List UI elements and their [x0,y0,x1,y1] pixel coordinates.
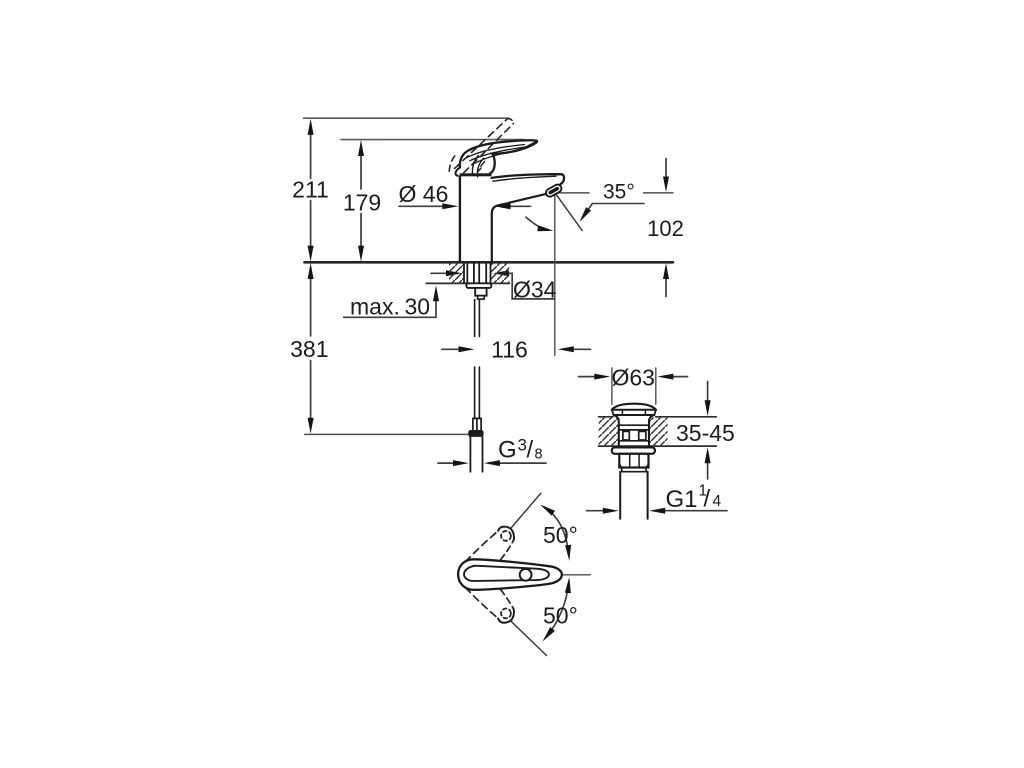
lower 50 arc with arrows [547,582,569,637]
threaded rod lower segment [475,367,480,418]
svg-text:max. 30: max. 30 [350,294,430,320]
lower dashed swung handle [498,609,514,623]
extension line top (211 upper reference) [304,117,509,119]
35 deg arc with arrow [526,217,548,230]
drain deck hatch right [650,418,668,446]
dimension 211 line [310,133,312,247]
spout inner top line [493,176,556,181]
svg-text:G: G [498,437,517,464]
handle top view outline [458,559,562,590]
lever handle outline [460,140,537,173]
spout vertical reference line [554,194,556,356]
dimension 116 [442,348,460,350]
handle pivot hole [520,569,532,581]
lever pivot dashes [478,161,485,171]
faucet mounting nut [475,288,486,296]
svg-text:116: 116 [491,336,528,362]
hose connector body [473,418,481,430]
svg-text:Ø 46: Ø 46 [399,181,449,207]
svg-text:50°: 50° [543,522,578,548]
faucet body right edge and spout underside [492,194,546,262]
35 deg leader with arrow to slant line [583,204,644,218]
35 deg slant line [555,193,582,230]
faucet deck bottom line [426,282,509,284]
O63 extension lines [612,368,656,405]
lever blade tip dark wedge [514,141,536,152]
50 deg lower slant line [511,621,547,656]
drain tail transition [620,468,647,472]
faucet deck hatch right [491,263,510,284]
hose tube [470,437,482,472]
dimension 179 line [360,154,362,247]
extension line 381 bottom reference [305,433,469,435]
svg-text:211: 211 [292,177,329,203]
lever blade inner lines [467,145,525,158]
upper dashed swung handle [498,527,514,541]
dimension O34 with elbow leader [431,272,447,274]
svg-text:102: 102 [647,216,684,241]
drain deck top line [599,416,717,418]
lever dome arcs [472,155,478,175]
drain tailpipe [620,472,647,519]
dimension 381 line [310,278,312,420]
drain body slots [623,431,629,440]
drain deck hatch left [599,418,619,446]
faucet deck hatch left [449,263,464,284]
50 deg upper slant line [511,493,541,528]
svg-text:Ø34: Ø34 [513,276,557,302]
faucet shank tubes through deck [464,262,491,283]
svg-text:8: 8 [535,446,543,462]
pop-up cap dome [612,404,656,410]
drain body neck [614,415,619,446]
threaded rod upper segment [475,300,480,337]
dimension G1 1/4 [587,510,604,512]
svg-text:4: 4 [713,493,722,510]
aerator outlet [545,183,563,198]
raised lever dashed outline [455,119,508,169]
dimension 35-45 [707,382,709,402]
svg-text:35-45: 35-45 [676,420,735,446]
handle top view inner outline [464,566,549,581]
deck / countertop line [305,261,674,264]
extension line 179 upper reference [341,139,525,141]
drain washer [612,447,655,453]
spout top edge [492,174,564,184]
svg-text:381: 381 [290,336,328,362]
faucet body left edge [459,176,461,261]
faucet mounting flange washer [466,283,491,288]
hose connector hex nut [468,430,483,437]
dimension O63 [579,376,596,378]
dimension O46 leader + arrows [399,205,443,207]
svg-text:50°: 50° [543,602,578,628]
drain body bands [619,425,649,441]
lever joint dark band [460,173,492,176]
drain deck bottom line [599,445,717,447]
upper 50 arc with arrows [544,507,569,555]
top view centerline [532,574,591,576]
spout outlet height reference lines (35 deg row) [557,192,589,194]
lever dome left bulge [455,168,459,176]
svg-text:/: / [704,486,711,513]
svg-text:35°: 35° [603,181,635,204]
dimension 102 [665,159,667,178]
dimension max. 30 [435,301,437,317]
svg-text:Ø63: Ø63 [612,364,655,390]
svg-text:/: / [527,437,534,464]
drain locknut [619,454,648,468]
svg-text:G1: G1 [666,486,698,513]
svg-text:179: 179 [343,190,381,216]
dimension G3/8 [438,462,454,464]
